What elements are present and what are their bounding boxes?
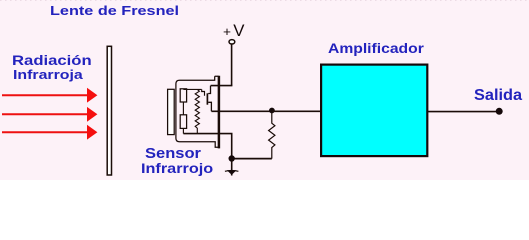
resistor R-int (sensor internal) bbox=[195, 89, 199, 133]
label "Sensor" bbox=[145, 146, 201, 161]
wire source to node A bbox=[211, 110, 271, 112]
amplifier block U1 bbox=[321, 65, 427, 157]
label "Infrarrojo" bbox=[141, 162, 213, 176]
transistor Q1 source lead bbox=[208, 102, 211, 111]
wire between elements bbox=[182, 102, 184, 115]
sensor base plate bbox=[218, 76, 221, 149]
label "Radiación" bbox=[12, 53, 92, 67]
+V terminal bbox=[229, 40, 235, 44]
label "Lente de Fresnel" bbox=[50, 5, 179, 18]
arrow IR-1 bbox=[2, 88, 97, 103]
wire bottom rail bbox=[232, 158, 272, 160]
wire drain to +V bbox=[211, 85, 233, 87]
arrow IR-2 bbox=[2, 107, 97, 122]
ground bbox=[225, 159, 239, 176]
wire pyro bottom stub bbox=[182, 128, 184, 133]
label "Amplificador" bbox=[328, 42, 424, 56]
wire node to amplifier bbox=[272, 110, 321, 112]
label "Infrarroja" bbox=[13, 68, 83, 81]
pyro element E2 bbox=[180, 115, 186, 129]
label "Salida" bbox=[474, 88, 522, 103]
sensor can outline bbox=[176, 76, 219, 147]
sensor IR window bar bbox=[168, 89, 175, 134]
node A junction dot bbox=[269, 108, 275, 114]
wire ground lead bbox=[183, 134, 231, 159]
pyro element E1 bbox=[180, 89, 186, 102]
transistor Q1 gate lead bbox=[202, 89, 205, 95]
faint top border artifact bbox=[0, 0, 529, 2]
output terminal dot bbox=[496, 108, 503, 115]
wire +V down bbox=[231, 44, 233, 86]
ground junction dot bbox=[229, 155, 235, 161]
wire top rail bbox=[183, 88, 201, 90]
Fresnel lens bar bbox=[107, 46, 111, 175]
wire amplifier output bbox=[428, 111, 498, 113]
arrow IR-3 bbox=[2, 125, 97, 140]
resistor R1 load bbox=[269, 111, 275, 159]
transistor Q1 drain lead bbox=[208, 86, 210, 94]
label "+V" bbox=[223, 23, 245, 39]
transistor Q1 channel bar bbox=[206, 93, 208, 104]
